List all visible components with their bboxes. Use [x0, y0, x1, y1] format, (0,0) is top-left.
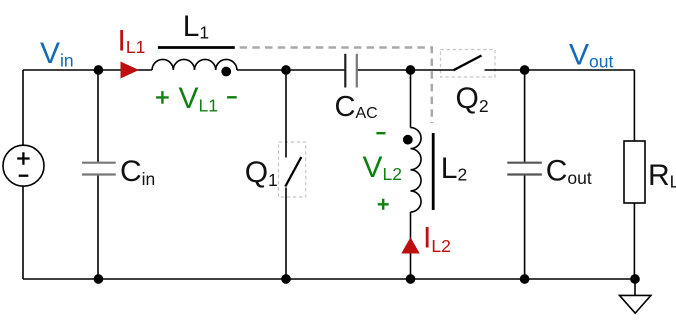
svg-text:Vout: Vout — [569, 38, 613, 71]
svg-text:CAC: CAC — [335, 91, 378, 123]
svg-text:RL: RL — [648, 159, 676, 192]
svg-text:L2: L2 — [441, 152, 467, 185]
svg-text:Cin: Cin — [120, 155, 155, 189]
svg-text:VL1: VL1 — [179, 82, 218, 116]
svg-text:Q1: Q1 — [245, 156, 278, 190]
svg-text:Vin: Vin — [40, 37, 74, 71]
svg-text:L1: L1 — [183, 10, 209, 43]
svg-text:IL1: IL1 — [118, 25, 146, 58]
svg-text:Q2: Q2 — [456, 82, 489, 116]
svg-text:Cout: Cout — [546, 155, 592, 189]
svg-text:IL2: IL2 — [423, 221, 451, 256]
svg-text:VL2: VL2 — [363, 151, 402, 184]
